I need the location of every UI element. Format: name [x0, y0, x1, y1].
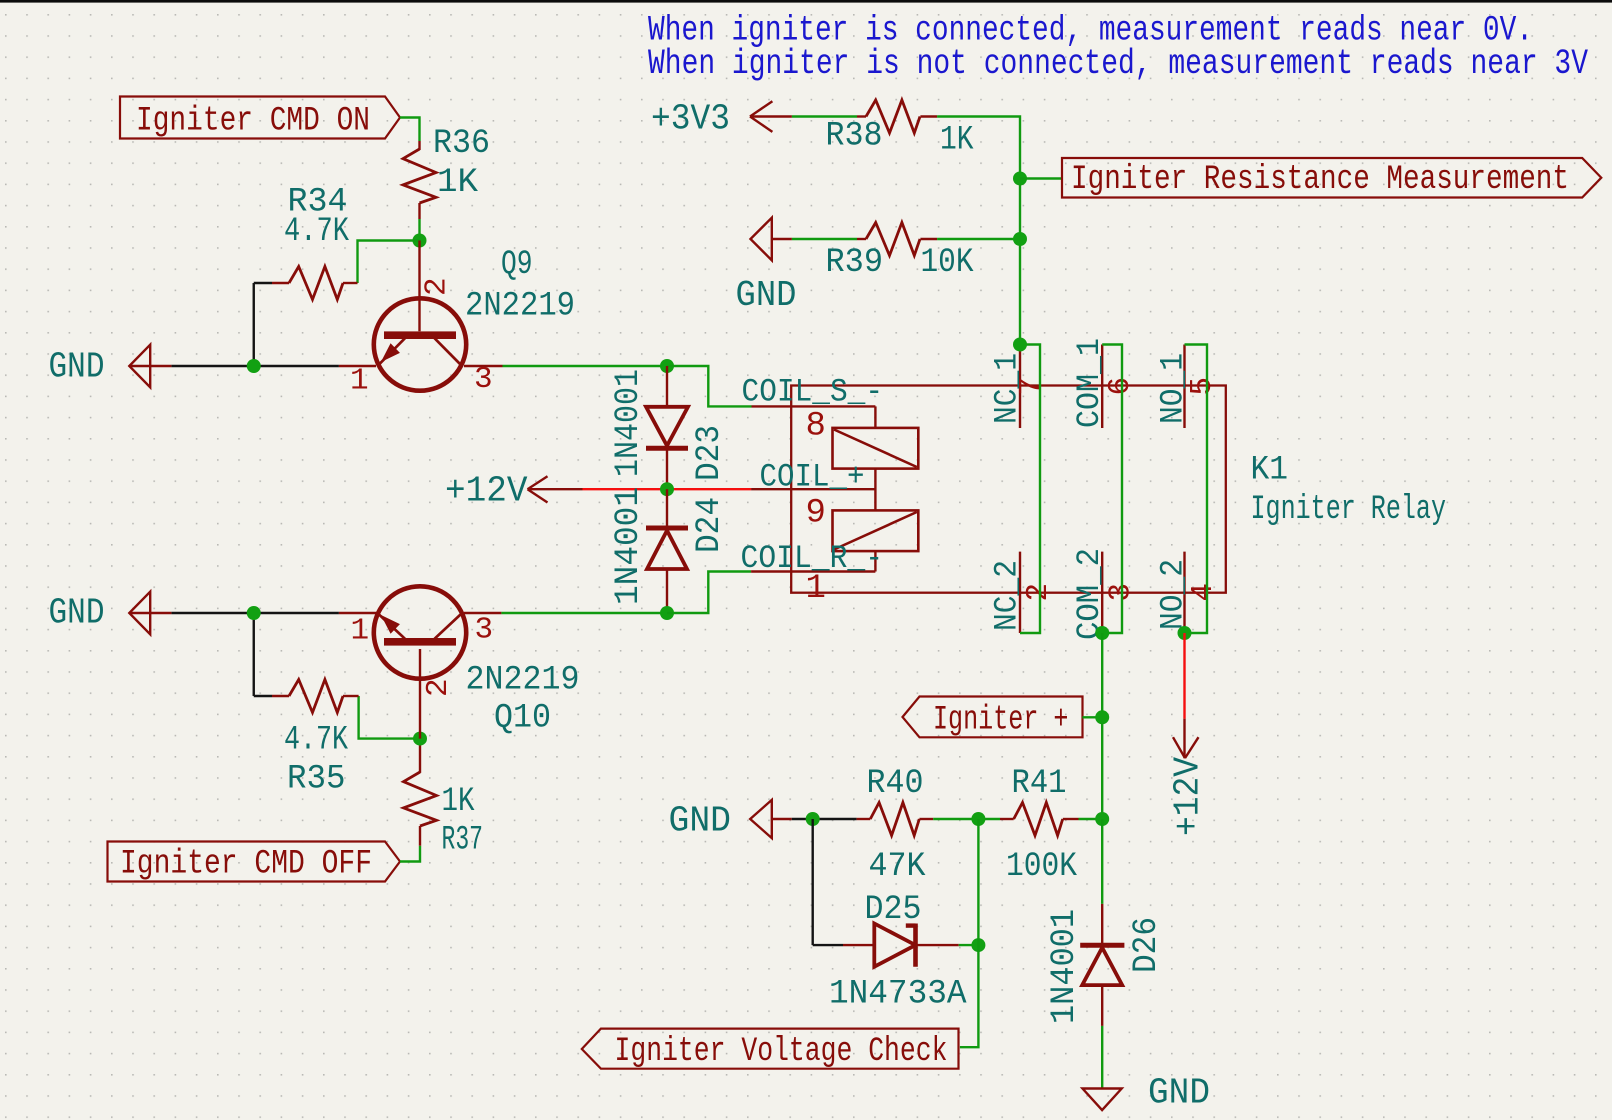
wire GND to R40: [792, 818, 857, 820]
junction igniter sense node: [1095, 812, 1109, 826]
hierarchical label Igniter Voltage Check: [582, 1029, 959, 1069]
wire R36 to base node: [418, 219, 420, 241]
svg-text:D26: D26: [1128, 917, 1166, 973]
wire node to relay pin 8: [667, 366, 752, 406]
svg-text:3: 3: [475, 613, 494, 648]
svg-text:3: 3: [474, 362, 493, 397]
svg-text:Igniter CMD OFF: Igniter CMD OFF: [120, 846, 372, 884]
svg-text:Igniter Relay: Igniter Relay: [1251, 491, 1447, 529]
svg-text:D23: D23: [691, 425, 729, 481]
resistor R41 100K: [1000, 818, 1014, 820]
top window border: [0, 0, 1612, 3]
wire NC_1 to NC_2: [1020, 345, 1040, 634]
wire Igniter+ label: [1082, 716, 1102, 718]
svg-text:4.7K: 4.7K: [284, 213, 349, 251]
resistor R39: [792, 238, 857, 240]
hierarchical label Igniter Resistance Measurement: [1062, 158, 1601, 198]
svg-text:Q10: Q10: [494, 700, 551, 738]
wire Q10 collector to D24 node: [501, 612, 667, 614]
wire R40 to mid node: [933, 818, 1000, 820]
resistor R37: [419, 826, 421, 846]
power symbol GND upper left: [129, 365, 171, 367]
svg-text:R39: R39: [826, 244, 884, 282]
junction Igniter+ node: [1095, 710, 1109, 724]
junction measurement label node: [1013, 172, 1027, 186]
relay coil 2: [833, 510, 919, 551]
wire mid node to check label: [960, 819, 979, 1047]
svg-text:1N4001: 1N4001: [610, 487, 648, 605]
relay pin 6 COM_1: [1101, 345, 1103, 429]
svg-text:R36: R36: [433, 125, 490, 163]
wire +12V to relay pin 9: [583, 488, 752, 490]
svg-text:COIL_+: COIL_+: [760, 459, 865, 496]
svg-text:D24: D24: [691, 497, 729, 553]
wire base node to R34: [358, 241, 420, 284]
svg-text:When igniter is not connected,: When igniter is not connected, measureme…: [648, 44, 1588, 84]
svg-text:+12V: +12V: [445, 471, 528, 512]
junction D24 node: [660, 606, 674, 620]
svg-text:GND: GND: [49, 593, 105, 634]
wire R41 to igniter node: [1079, 818, 1103, 820]
svg-text:D25: D25: [865, 891, 922, 929]
junction GND sense node: [806, 812, 820, 826]
junction mid node: [971, 812, 985, 826]
wire NO_1 to NO_2: [1185, 345, 1208, 634]
svg-text:1K: 1K: [940, 122, 974, 160]
relay pin 2 NC_2: [1019, 552, 1021, 633]
wire to measurement label: [1020, 177, 1062, 179]
wire COM_1 to COM_2: [1102, 345, 1122, 634]
wire R39 to measurement node: [937, 238, 1020, 240]
transistor Q9 2N2219: [339, 365, 376, 367]
svg-text:Q9: Q9: [501, 246, 533, 284]
resistor R36: [418, 141, 420, 150]
svg-text:1K: 1K: [442, 783, 475, 821]
hierarchical label Igniter CMD ON: [120, 97, 400, 139]
svg-text:Igniter Resistance Measurement: Igniter Resistance Measurement: [1071, 161, 1569, 199]
svg-text:1: 1: [806, 570, 826, 608]
svg-text:K1: K1: [1251, 452, 1289, 490]
svg-text:+12V: +12V: [1168, 757, 1209, 836]
hierarchical label Igniter CMD OFF: [108, 842, 401, 882]
wire GND rail to Q10 emitter: [171, 612, 339, 614]
svg-text:GND: GND: [736, 275, 797, 316]
wire COM_2 down to igniter node: [1101, 633, 1103, 819]
svg-text:GND: GND: [669, 801, 732, 842]
wire node to relay pin 1: [667, 572, 751, 614]
power symbol GND lower left: [129, 612, 171, 614]
junction NC_1 top: [1013, 338, 1027, 352]
svg-text:R41: R41: [1012, 765, 1067, 803]
svg-text:2: 2: [421, 678, 456, 697]
relay pin 5 NO_1: [1183, 345, 1185, 429]
wire base node to R35: [359, 696, 414, 739]
junction NO_2 bottom: [1178, 626, 1192, 640]
relay pin 3 COM_2: [1101, 552, 1103, 633]
diode D26 1N4001: [1101, 819, 1103, 904]
svg-text:100K: 100K: [1006, 848, 1078, 886]
svg-text:2N2219: 2N2219: [465, 288, 575, 326]
svg-text:10K: 10K: [921, 244, 975, 282]
wire Q9 collector to D23 node: [503, 365, 668, 367]
svg-text:R37: R37: [442, 822, 484, 860]
svg-text:1: 1: [351, 614, 370, 649]
junction GND rail: [247, 359, 261, 373]
junction D23 node: [660, 359, 674, 373]
junction R39 node: [1013, 232, 1027, 246]
wire label to R37: [400, 846, 420, 862]
svg-text:Igniter +: Igniter +: [933, 702, 1069, 740]
resistor R38: [792, 115, 857, 117]
junction check node: [971, 938, 985, 952]
svg-text:GND: GND: [1148, 1073, 1210, 1114]
svg-text:1N4001: 1N4001: [610, 369, 648, 477]
svg-text:4.7K: 4.7K: [284, 722, 348, 760]
relay pin 1 COIL_R_-: [751, 570, 875, 572]
svg-text:R35: R35: [287, 761, 346, 799]
relay coil 1: [833, 428, 919, 469]
svg-text:2: 2: [1021, 583, 1056, 602]
power symbol GND bottom: [1083, 1089, 1122, 1111]
wire R38 to measurement node: [937, 117, 1020, 345]
hierarchical label Igniter +: [903, 697, 1083, 738]
diode D24 1N4001: [666, 489, 668, 528]
wire D25 to check node: [959, 944, 979, 946]
relay pin 8 COIL_S_-: [752, 405, 876, 407]
svg-text:+3V3: +3V3: [651, 99, 730, 140]
svg-text:NO_1: NO_1: [1155, 353, 1192, 424]
svg-text:R38: R38: [826, 118, 883, 156]
svg-text:COIL_S_-: COIL_S_-: [742, 374, 884, 411]
svg-text:6: 6: [1103, 377, 1138, 396]
resistor R40 47K: [857, 818, 871, 820]
svg-text:Igniter Voltage Check: Igniter Voltage Check: [615, 1033, 948, 1071]
resistor R34: [343, 282, 358, 284]
relay pin 9 COIL_+: [751, 488, 875, 490]
relay pin 7 NC_1: [1019, 345, 1021, 429]
wire R35 to GND rail: [254, 695, 272, 697]
wire R34 to GND rail: [254, 282, 272, 284]
svg-text:9: 9: [806, 495, 826, 533]
svg-text:47K: 47K: [869, 848, 927, 886]
svg-text:NC_2: NC_2: [989, 560, 1026, 631]
svg-text:1N4001: 1N4001: [1046, 909, 1084, 1024]
svg-text:2: 2: [420, 277, 455, 296]
junction GND rail lower: [247, 606, 261, 620]
wire D26 to GND: [1101, 1026, 1103, 1089]
junction base node Q9: [413, 234, 427, 248]
junction +12V node: [660, 482, 674, 496]
wire GND node down to D25: [812, 819, 814, 945]
zener diode D25 1N4733A: [843, 944, 874, 946]
junction COM_2 bottom: [1095, 626, 1109, 640]
wire label to R36: [400, 118, 420, 142]
svg-text:GND: GND: [49, 347, 105, 388]
wire GND rail to Q9 emitter: [171, 365, 339, 367]
power symbol +12V bottom: [1183, 633, 1185, 719]
svg-text:1: 1: [350, 364, 369, 399]
relay K1 outline: [791, 386, 1226, 593]
svg-text:8: 8: [806, 408, 826, 446]
svg-text:NC_1: NC_1: [989, 353, 1026, 424]
transistor Q10 2N2219: [339, 612, 376, 614]
diode D23 1N4001: [666, 366, 668, 407]
svg-text:Igniter CMD ON: Igniter CMD ON: [136, 103, 370, 141]
svg-text:1N4733A: 1N4733A: [829, 976, 967, 1014]
svg-text:2N2219: 2N2219: [466, 662, 580, 700]
svg-text:COM_1: COM_1: [1071, 338, 1108, 428]
svg-text:R40: R40: [867, 765, 924, 803]
relay pin 4 NO_2: [1183, 552, 1185, 633]
resistor R35: [343, 695, 359, 697]
junction base node Q10: [413, 732, 427, 746]
svg-text:1K: 1K: [437, 164, 479, 202]
svg-text:NO_2: NO_2: [1155, 559, 1192, 630]
